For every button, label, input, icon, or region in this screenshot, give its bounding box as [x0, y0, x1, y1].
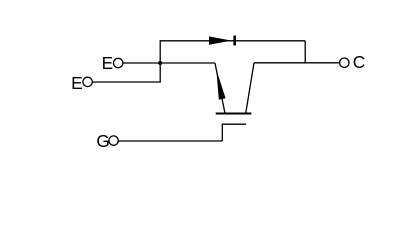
diode D1	[209, 36, 236, 46]
junction node (emitter bus)	[158, 61, 162, 65]
wire left vertical (emitter bus)	[159, 40, 161, 82]
svg-text:C: C	[353, 52, 365, 72]
wire lower E	[93, 81, 161, 83]
transistor Q1 (IGBT)	[215, 63, 254, 124]
collector slant of Q1	[246, 63, 254, 114]
emitter slant of Q1	[215, 63, 225, 114]
channel bar of Q1	[216, 113, 252, 115]
terminal circle C	[340, 58, 349, 67]
wire gate vertical	[221, 124, 223, 141]
wire right vertical (diode cathode to collector)	[304, 41, 306, 63]
wire top (collector-diode bus)	[160, 40, 305, 42]
gate bar of Q1	[222, 123, 247, 125]
cathode bar of D1	[233, 36, 236, 46]
emitter arrow of Q1	[216, 70, 225, 100]
svg-text:E: E	[102, 53, 114, 73]
wire upper E to emitter	[123, 62, 215, 64]
terminal circle E lower	[83, 77, 92, 86]
svg-text:G: G	[96, 131, 109, 151]
svg-text:E: E	[71, 73, 83, 93]
wire gate horizontal	[118, 140, 222, 142]
terminal circle E upper	[114, 58, 123, 67]
terminal circle G	[109, 136, 118, 145]
wire collector to terminal C	[254, 62, 339, 64]
anode triangle of D1	[209, 36, 232, 44]
